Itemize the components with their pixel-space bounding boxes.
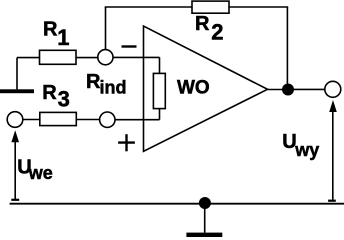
svg-text:R: R: [195, 13, 210, 35]
svg-text:WO: WO: [177, 78, 210, 99]
svg-text:R: R: [42, 82, 57, 104]
svg-text:R: R: [43, 18, 58, 40]
svg-text:3: 3: [58, 87, 70, 112]
svg-text:wy: wy: [294, 140, 319, 160]
svg-text:2: 2: [211, 20, 223, 45]
svg-text:ind: ind: [100, 78, 127, 98]
svg-text:1: 1: [57, 25, 69, 50]
svg-text:we: we: [28, 163, 53, 183]
